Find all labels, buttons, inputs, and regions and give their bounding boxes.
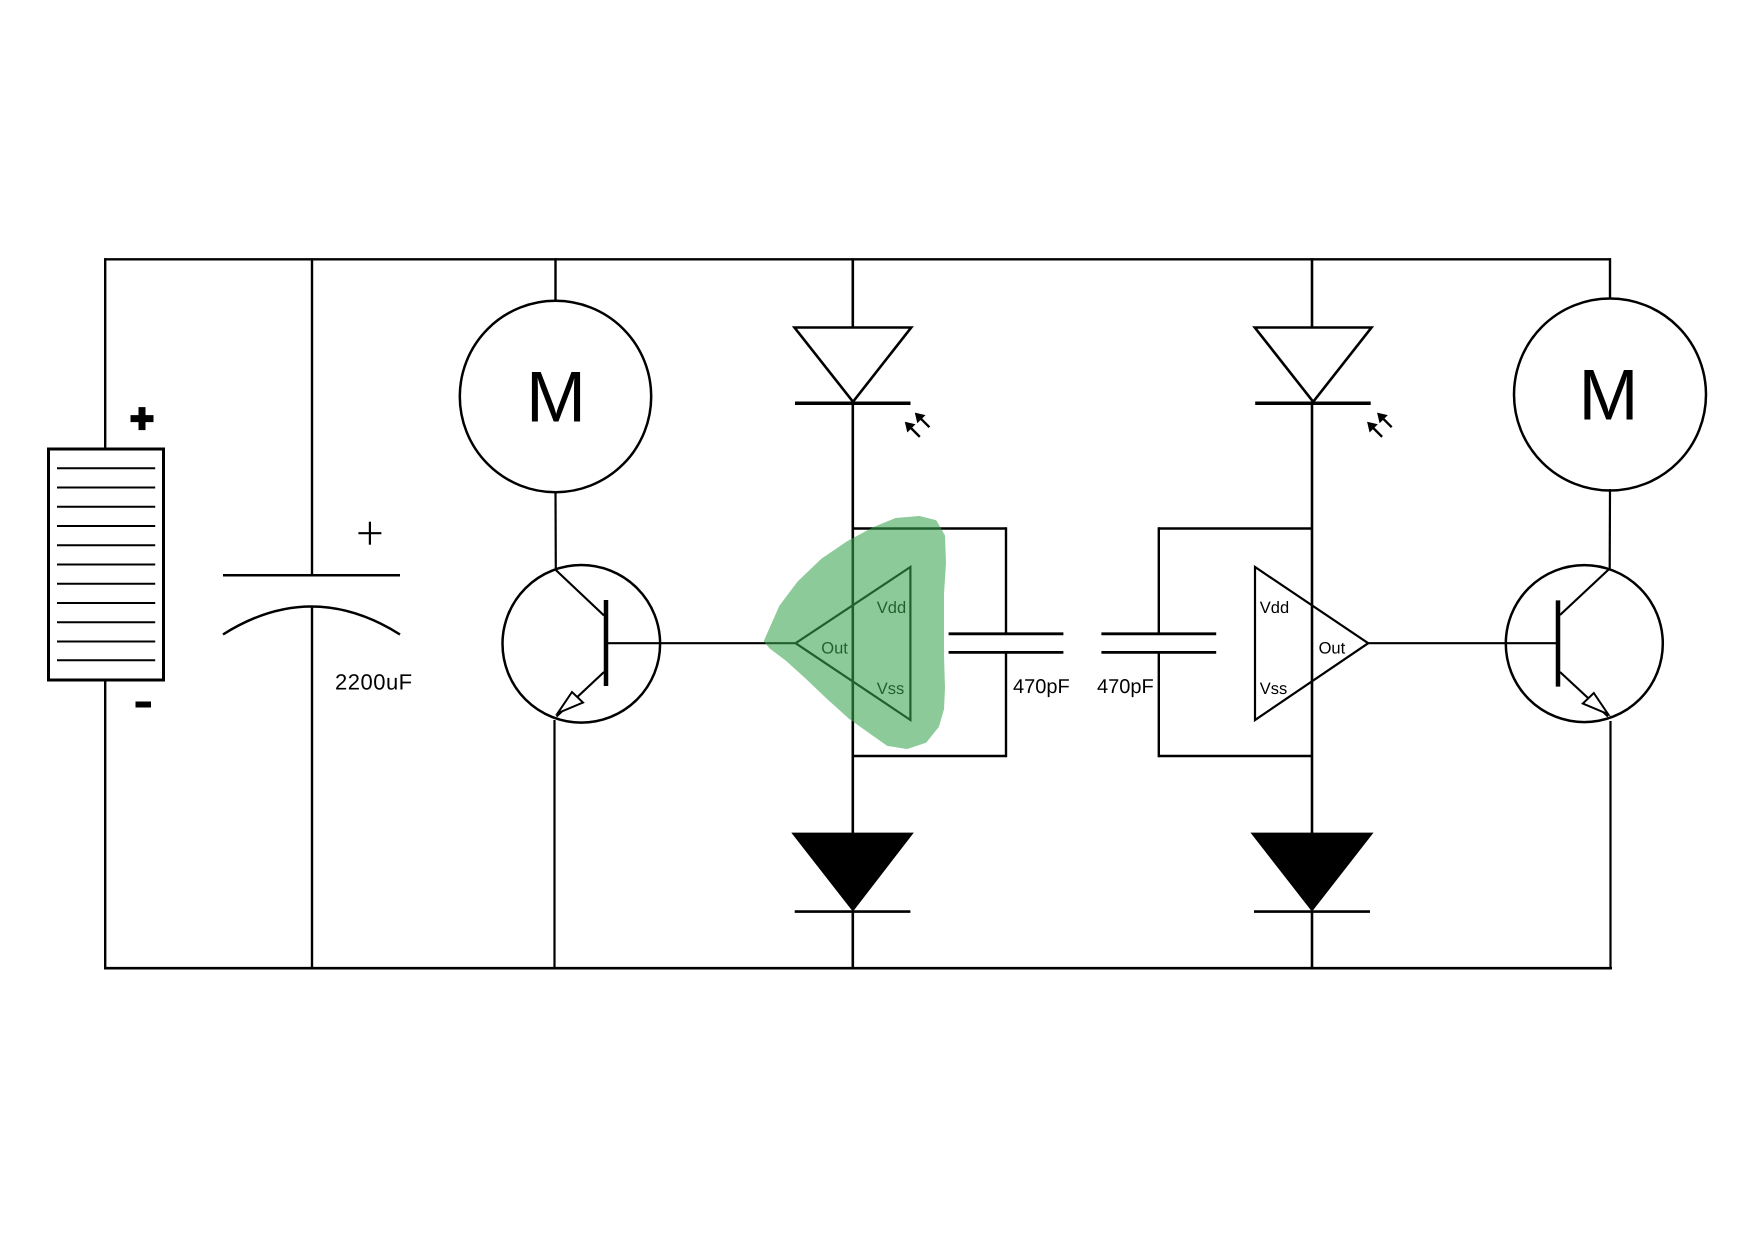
wire motor M1 to Q1 collector [554,491,556,570]
wire bottom bus [104,967,1612,970]
capacitor C1 [223,575,400,634]
wire U1 Vss bottom rail [853,755,1006,757]
wire D2 cathode down [851,911,854,969]
label PV1 minus [136,702,152,708]
LED D3 [1255,328,1372,404]
wire motor M2 top [1609,258,1611,300]
LED D3 light arrows [1367,413,1392,437]
wire C2 top lead [1005,527,1007,634]
wire capacitor C1 top [311,258,313,575]
LED D1 [795,328,912,404]
transistor Q2 [1506,565,1663,722]
capacitor C2 [949,634,1064,653]
wire Q2 emitter down [1609,721,1611,969]
motor M2 [1514,299,1706,491]
wire LED D3 cathode to D4 [1311,402,1314,835]
wire LED D1 cathode to D2 [851,402,854,835]
wire Q1 base to U1 output [608,642,796,644]
wire motor M2 to Q2 collector [1609,489,1612,569]
wire U2 output to Q2 base [1368,642,1556,644]
voltage trigger U2 [1255,567,1368,720]
label C1 polarity plus [358,522,381,545]
svg-text:2200uF: 2200uF [335,670,413,695]
LED D1 light arrows [905,413,930,437]
svg-text:Vdd: Vdd [1260,599,1289,617]
voltage trigger U1 [796,567,911,720]
wire capacitor C1 bottom [311,607,313,970]
svg-text:Vss: Vss [1260,680,1288,698]
motor M1 [460,301,651,492]
wire LED D1 anode [851,258,854,328]
wire D4 cathode down [1311,911,1314,969]
diode D2 [793,834,912,912]
diode D4 [1253,834,1372,912]
wire Q1 emitter down [553,720,555,969]
svg-text:M: M [1579,356,1639,436]
label PV1 plus [131,407,154,430]
wire top bus [104,258,1611,260]
wire C3 top lead [1158,527,1160,634]
wire U1 Vdd top rail [853,527,1006,529]
wire battery negative lead [104,678,106,969]
highlight marker over U1 [766,518,944,747]
svg-text:M: M [526,357,586,437]
solar cell PV1 [49,449,164,680]
wire LED D3 anode [1311,258,1314,328]
wire C2 bottom lead [1005,652,1007,757]
transistor Q1 [503,565,661,723]
wire motor M1 top [554,258,556,302]
svg-text:Out: Out [1319,640,1346,658]
svg-text:470pF: 470pF [1013,676,1070,698]
wire U2 Vdd top rail [1159,527,1312,529]
wire C3 bottom lead [1158,652,1160,757]
wire U2 Vss bottom rail [1159,755,1312,757]
wire battery positive lead [104,258,106,450]
svg-text:470pF: 470pF [1097,676,1154,698]
capacitor C3 [1101,634,1216,653]
